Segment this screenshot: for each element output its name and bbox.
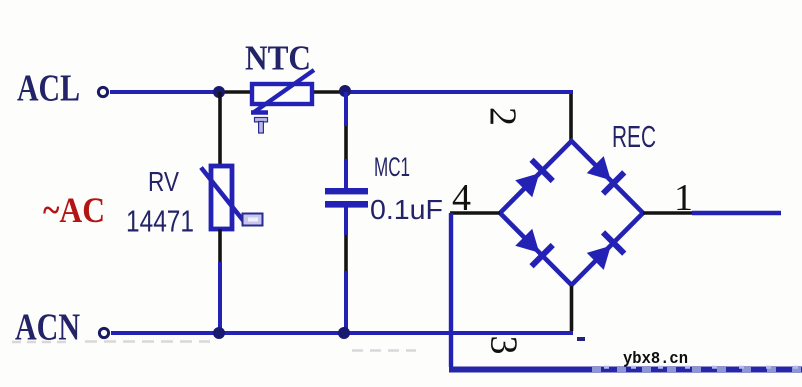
wire ACL lead (blue, terminal to RV junction) <box>110 90 221 94</box>
node junction dot D (bottom of MC1) <box>338 327 350 339</box>
wire MC1 bottom lead black part <box>344 235 348 271</box>
varistor RV body <box>211 166 232 229</box>
wire pin1 lead (black) <box>643 211 692 215</box>
svg-text:REC: REC <box>612 119 656 154</box>
watermark dashes over bottom wire <box>592 367 802 369</box>
thermistor NTC body <box>252 84 312 104</box>
capacitor MC1 bottom plate <box>325 201 368 208</box>
wire bridge bottom lead (black vertical) <box>570 286 574 331</box>
wire RV bottom lead (black then blue) <box>218 229 222 262</box>
wire black segment left of NTC <box>221 90 252 94</box>
wire RV bottom lead blue part <box>218 262 222 333</box>
varistor RV tail box <box>243 214 263 226</box>
wire MC1 top lead black part <box>344 126 348 159</box>
thermistor NTC t-mark <box>255 118 268 134</box>
wire DC+ output (blue) <box>692 211 781 215</box>
svg-text:RV: RV <box>148 166 179 197</box>
terminal ACN <box>99 328 108 337</box>
svg-text:MC1: MC1 <box>374 152 410 182</box>
wire top rail (blue, NTC junction to bridge corner) <box>345 90 573 94</box>
terminal ACL <box>98 87 107 96</box>
wire pin4 lead (black) <box>450 211 500 215</box>
svg-text:14471: 14471 <box>126 204 194 239</box>
wire black segment right of NTC <box>312 90 345 94</box>
wire bridge top lead (black vertical from corner) <box>569 94 573 141</box>
node junction dot A (top of RV) <box>213 86 225 98</box>
wire MC1 top lead (blue/black/blue) <box>344 92 348 126</box>
diode D4 (bottom to right edge) <box>585 232 625 272</box>
wire ACN rail (blue) <box>111 331 573 335</box>
rectifier bridge diamond outline <box>500 141 643 285</box>
node junction dot B (top of MC1) <box>339 85 351 97</box>
wire MC1 bottom lead (blue/black/blue) <box>344 207 348 235</box>
capacitor MC1 top plate <box>325 188 368 194</box>
svg-text:NTC: NTC <box>245 39 311 78</box>
svg-text:~AC: ~AC <box>43 190 105 230</box>
wire negative rail bottom run (blue, thick, watermark-mottled) <box>449 367 802 373</box>
thermistor NTC diagonal stroke <box>254 70 315 113</box>
thermistor NTC foot bar <box>251 110 268 114</box>
varistor RV diagonal stroke <box>201 168 244 222</box>
svg-text:2: 2 <box>482 107 524 126</box>
watermark faint gray dashed row <box>12 340 210 343</box>
watermark navy dash <box>577 337 585 341</box>
diode D1 (left to top edge) <box>513 160 553 200</box>
wire negative rail vertical (blue) <box>449 213 453 367</box>
wire MC1 top lead blue part <box>344 159 348 189</box>
wire RV top lead (black) <box>218 92 222 166</box>
svg-text:0.1uF: 0.1uF <box>370 194 443 225</box>
svg-text:ACL: ACL <box>17 68 80 110</box>
diode D2 (top to right edge) <box>585 154 625 194</box>
svg-text:3: 3 <box>483 336 525 355</box>
diode D3 (left to bottom edge) <box>513 227 553 267</box>
node junction dot C (bottom of RV) <box>213 327 225 339</box>
wire MC1 bottom lead blue part <box>344 271 348 333</box>
watermark faint gray dashes mid-bottom <box>352 349 416 351</box>
